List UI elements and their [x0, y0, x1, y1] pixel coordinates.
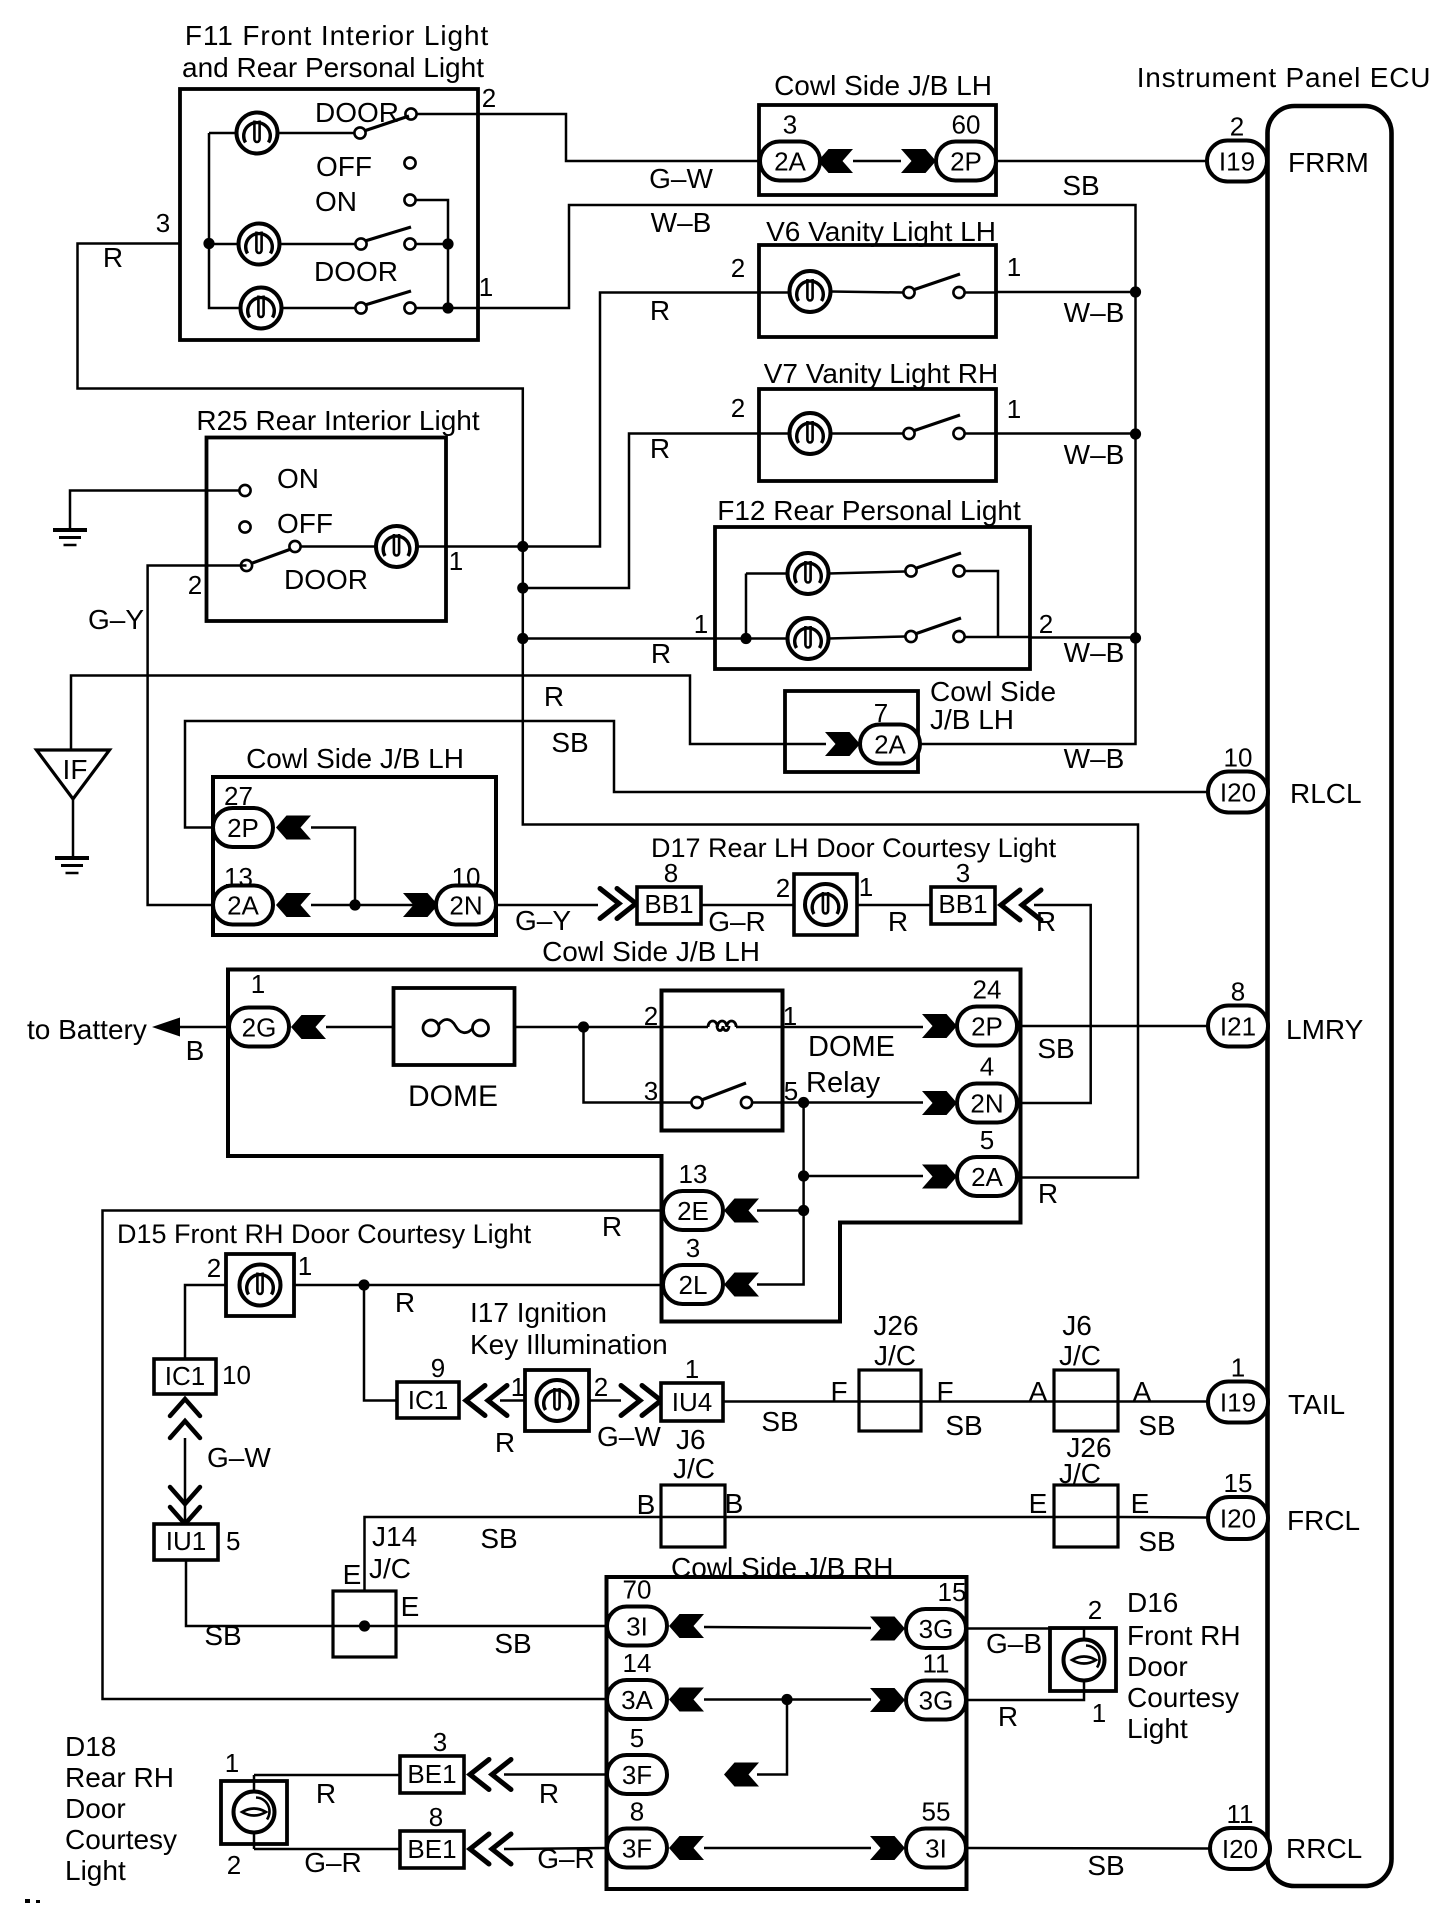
- svg-text:3I: 3I: [626, 1612, 648, 1642]
- wire through J26 (FRCL): [1054, 1516, 1118, 1519]
- connector BE1 pin 8: [400, 1802, 464, 1868]
- junction block J14: [333, 1591, 396, 1657]
- label wire color R (D17 mid): [888, 906, 908, 937]
- wire G-Y net R25 pin2 to 2A pin13: [148, 566, 247, 906]
- connector 3F pin 5 (J/B RH): [607, 1723, 667, 1794]
- label D17 lamp pin 1: [859, 872, 873, 902]
- label J14 J/C title line1: [372, 1521, 417, 1552]
- component I17 lamp box: [525, 1370, 589, 1431]
- wire F11 switch2 to rail: [416, 243, 449, 246]
- blade F11 switch3: [365, 291, 411, 305]
- svg-text:Cowl Side: Cowl Side: [930, 676, 1056, 707]
- label Cowl Side J/B LH title (big): [542, 936, 760, 967]
- svg-text:Front RH: Front RH: [1127, 1620, 1241, 1651]
- svg-text:1: 1: [479, 272, 493, 302]
- label pin A right: [1133, 1376, 1152, 1407]
- junction chevron 2 after BB1 pin3: [1022, 890, 1041, 920]
- noise filter IF triangle: [37, 750, 110, 799]
- label F11 pin 1: [479, 272, 493, 302]
- label wire color R (F11 pin3): [103, 242, 123, 273]
- label wire color W-B (top): [651, 207, 712, 238]
- svg-text:J/C: J/C: [1059, 1340, 1101, 1371]
- wire SB 3I pin55 to I20 RRCL: [966, 1847, 1209, 1850]
- contact F11 OFF: [404, 157, 415, 168]
- component Cowl Side J/B LH big box: [228, 970, 1021, 1322]
- wire F12 switch1 right rail: [965, 571, 999, 637]
- connector I19 pin 2 (FRRM): [1207, 112, 1267, 182]
- svg-text:2E: 2E: [677, 1196, 709, 1226]
- blade F11 DOOR switch: [364, 116, 409, 131]
- label D15 title: [117, 1219, 532, 1249]
- wire relay pin1 to 2P: [782, 1026, 923, 1029]
- connector BB1 pin 3: [931, 858, 995, 924]
- svg-text:8: 8: [630, 1797, 644, 1827]
- svg-text:I20: I20: [1220, 778, 1256, 808]
- label wire color W-B (2A): [1064, 743, 1125, 774]
- wire 2P arrow to branch: [311, 828, 355, 906]
- svg-text:2: 2: [776, 873, 790, 903]
- connector 2P pin 24 (big J/B): [957, 975, 1017, 1046]
- label relay pin 1: [783, 1001, 797, 1031]
- wire F12 internal left bus: [716, 574, 788, 639]
- contact R25 DOOR pivot: [289, 541, 300, 552]
- svg-text:2: 2: [207, 1253, 221, 1283]
- wire D15 branch to IC1 pin9: [364, 1285, 397, 1401]
- label wire color SB (FRRM): [1062, 170, 1099, 201]
- svg-text:D16: D16: [1127, 1587, 1178, 1618]
- connector 2N pin 4 (big J/B): [957, 1052, 1017, 1123]
- svg-text:1: 1: [449, 546, 463, 576]
- svg-text:Instrument Panel ECU: Instrument Panel ECU: [1137, 62, 1432, 93]
- label I17 lamp pin 2: [594, 1372, 608, 1402]
- label Cowl Side J/B RH title: [671, 1552, 894, 1583]
- svg-text:FRRM: FRRM: [1288, 147, 1369, 178]
- wire coil internal: [661, 1026, 782, 1029]
- label wire color R (D16): [998, 1701, 1018, 1732]
- wire G-R D18 pin2 to BE1 pin8: [254, 1848, 400, 1851]
- label 2G pin 1: [251, 969, 265, 999]
- svg-text:1: 1: [225, 1748, 239, 1778]
- contact F11 switch3 right: [404, 302, 415, 313]
- wire V6 switch to pin1: [965, 291, 997, 294]
- svg-text:G–R: G–R: [537, 1843, 595, 1874]
- svg-text:DOME: DOME: [808, 1031, 895, 1063]
- svg-text:LMRY: LMRY: [1286, 1014, 1364, 1045]
- connector 2A pin 5 (big J/B): [957, 1125, 1017, 1196]
- wire D18 lamp vertical: [253, 1775, 256, 1849]
- svg-text:11: 11: [1227, 1799, 1254, 1829]
- svg-text:9: 9: [431, 1353, 445, 1383]
- contact R25 ON: [239, 485, 250, 496]
- contact relay switch left: [691, 1097, 702, 1108]
- label F11 DOOR (bottom): [314, 256, 398, 287]
- svg-text:R: R: [539, 1778, 559, 1809]
- lamp V6 bulb: [790, 271, 831, 312]
- connector BE1 pin 3: [400, 1727, 464, 1793]
- label relay pin 5: [784, 1076, 798, 1106]
- label wire color SB (LMRY): [1037, 1033, 1074, 1064]
- label relay pin 2: [644, 1001, 658, 1031]
- label wire color R (2A pin5): [1038, 1178, 1058, 1209]
- svg-text:I21: I21: [1220, 1012, 1256, 1042]
- contact F11 DOOR switch right: [405, 108, 416, 119]
- component D17 lamp box: [794, 874, 857, 935]
- svg-text:13: 13: [679, 1159, 708, 1189]
- svg-text:OFF: OFF: [316, 151, 372, 182]
- wire SB J14 to 3I pin70: [396, 1625, 607, 1628]
- label wire color SB (TAIL 1): [761, 1406, 798, 1437]
- wire branch to relay pin3: [584, 1027, 662, 1103]
- contact F11 switch3 left: [355, 302, 366, 313]
- svg-text:R: R: [1038, 1178, 1058, 1209]
- junction F12 lamp bus: [740, 633, 751, 644]
- junction chevron 1 after BE1 pin8: [470, 1834, 489, 1864]
- svg-text:IU1: IU1: [166, 1526, 206, 1556]
- svg-text:BE1: BE1: [407, 1834, 456, 1864]
- wire G-W IC1 to IU1: [184, 1438, 187, 1524]
- junction chevron 1 after IC1 pin9: [466, 1386, 485, 1416]
- lamp F12 bulb 1: [788, 553, 829, 594]
- wire R chevrons to 3F pin5: [504, 1773, 607, 1776]
- svg-text:ON: ON: [315, 186, 357, 217]
- label wire color SB (TAIL 3): [1138, 1410, 1175, 1441]
- svg-text:Courtesy: Courtesy: [65, 1824, 177, 1855]
- svg-text:G–W: G–W: [207, 1442, 271, 1473]
- wire G-R BB1 to D17 lamp: [701, 904, 794, 907]
- label V7 pin 2: [731, 393, 745, 423]
- label J26 J/C title line2: [874, 1340, 916, 1371]
- label F11 DOOR (top): [315, 97, 399, 128]
- svg-text:SB: SB: [1037, 1033, 1074, 1064]
- wire 2A arrow to 2N arrow: [311, 904, 432, 907]
- label R25 pin 2: [188, 570, 202, 600]
- label F11 OFF: [316, 151, 372, 182]
- svg-text:DOOR: DOOR: [315, 97, 399, 128]
- svg-text:2P: 2P: [227, 813, 259, 843]
- wire F11 internal lamp bus: [209, 133, 240, 308]
- connector IU4 pin 1: [661, 1354, 723, 1421]
- svg-text:Relay: Relay: [806, 1067, 881, 1099]
- svg-text:R: R: [650, 295, 670, 326]
- svg-text:3: 3: [433, 1727, 447, 1757]
- junction chevron 1 after BB1 pin3: [1001, 890, 1020, 920]
- label 2P pin 27: [224, 781, 253, 811]
- label pin B left (J6 FRCL): [637, 1489, 656, 1520]
- svg-text:SB: SB: [494, 1628, 531, 1659]
- wire through J26 (TAIL): [859, 1400, 921, 1403]
- wire D15 pin1 to 2L pin3: [294, 1284, 663, 1287]
- label RRCL: [1286, 1833, 1362, 1864]
- wire R D17 lamp to BB1 pin3: [857, 904, 931, 907]
- svg-text:2L: 2L: [679, 1270, 708, 1300]
- wire to battery line: [178, 1026, 229, 1029]
- svg-text:I20: I20: [1220, 1504, 1256, 1534]
- svg-text:SB: SB: [480, 1523, 517, 1554]
- label D17 title: [651, 833, 1057, 863]
- svg-text:W–B: W–B: [1064, 743, 1125, 774]
- wire F11 pin2 to DOOR switch: [417, 113, 479, 116]
- svg-text:2: 2: [644, 1001, 658, 1031]
- svg-text:A: A: [1029, 1376, 1048, 1407]
- wire D15 pin2 to IC1 pin10: [185, 1285, 226, 1359]
- label J26 J/C title (FRCL) line2: [1059, 1458, 1101, 1489]
- junction arrow into 2A pin5: [922, 1165, 957, 1189]
- connector 2L pin 3 (big J/B): [663, 1233, 723, 1304]
- junction R bus / R25 pin1 and V6: [517, 541, 528, 552]
- junction arrow into 3G pin15: [870, 1617, 905, 1641]
- label TAIL: [1288, 1389, 1345, 1420]
- wire 2G arrow to fuse: [326, 1026, 394, 1029]
- svg-text:1: 1: [1007, 252, 1021, 282]
- svg-text:R: R: [316, 1778, 336, 1809]
- svg-text:5: 5: [980, 1125, 994, 1155]
- label wire color SB (FRCL right): [1138, 1526, 1175, 1557]
- svg-text:E: E: [1131, 1488, 1150, 1519]
- svg-text:SB: SB: [761, 1406, 798, 1437]
- svg-text:F11 Front Interior Light: F11 Front Interior Light: [185, 20, 489, 51]
- svg-text:J/C: J/C: [369, 1553, 411, 1584]
- label wire color R (D15 pin1): [395, 1287, 415, 1318]
- connector IU1 pin 5: [154, 1524, 240, 1560]
- svg-text:3G: 3G: [919, 1686, 954, 1716]
- wire G-R chevrons to 3F pin8: [504, 1848, 607, 1849]
- svg-text:11: 11: [923, 1649, 950, 1679]
- contact F11 DOOR switch left: [354, 127, 365, 138]
- svg-text:3: 3: [156, 208, 170, 238]
- svg-text:1: 1: [1231, 1353, 1245, 1383]
- label pin B right (J6 FRCL): [725, 1488, 744, 1519]
- connector BB1 pin 8: [637, 858, 701, 924]
- svg-text:1: 1: [251, 969, 265, 999]
- svg-text:Courtesy: Courtesy: [1127, 1682, 1239, 1713]
- connector 3I pin 70 (J/B RH): [607, 1575, 667, 1646]
- junction block J26 (FRCL): [1054, 1485, 1118, 1547]
- junction chevron 2 after BE1 pin8: [492, 1834, 511, 1864]
- junction arrow into 2N pin4: [922, 1091, 957, 1115]
- blade V6 switch: [913, 274, 960, 290]
- svg-text:3A: 3A: [621, 1685, 653, 1715]
- svg-text:RLCL: RLCL: [1290, 778, 1362, 809]
- component Cowl Side J/B LH small box: [785, 691, 918, 772]
- svg-text:2: 2: [594, 1372, 608, 1402]
- label D18 text line3: [65, 1793, 126, 1824]
- svg-text:SB: SB: [551, 727, 588, 758]
- svg-text:R: R: [998, 1701, 1018, 1732]
- label DOME fuse: [408, 1080, 498, 1113]
- connector I21 pin 8 (LMRY): [1208, 977, 1268, 1047]
- svg-text:FRCL: FRCL: [1287, 1505, 1360, 1536]
- svg-text:R: R: [544, 681, 564, 712]
- wire W-B bus F11 pin1 to vanity/personal lights: [478, 205, 1136, 744]
- label D16 text line4: [1127, 1682, 1239, 1713]
- svg-text:ON: ON: [277, 463, 319, 494]
- svg-text:G–Y: G–Y: [88, 604, 144, 635]
- component V6 vanity light box: [759, 245, 996, 337]
- svg-text:D18: D18: [65, 1731, 116, 1762]
- svg-text:I20: I20: [1222, 1834, 1258, 1864]
- wire V6 pin1 to W-B bus: [996, 291, 1136, 294]
- junction arrow into 2G: [291, 1015, 326, 1039]
- contact V7 switch right: [953, 428, 964, 439]
- connector I20 pin 11 (RRCL): [1210, 1799, 1270, 1869]
- label R25 pin 1: [449, 546, 463, 576]
- svg-text:W–B: W–B: [1064, 637, 1125, 668]
- connector 2A pin 3 (Cowl J/B LH top): [760, 110, 820, 181]
- label pin E right (FRCL): [1131, 1488, 1150, 1519]
- svg-text:3F: 3F: [622, 1834, 652, 1864]
- svg-text:G–B: G–B: [986, 1628, 1042, 1659]
- label I17 lamp pin 1: [511, 1372, 525, 1402]
- svg-text:J26: J26: [873, 1310, 918, 1341]
- label wire color R (IF net): [544, 681, 564, 712]
- wire through J6 (FRCL): [661, 1516, 725, 1519]
- junction arrow into 2P (top J/B): [901, 149, 936, 173]
- wire F11 ON contact to right rail: [416, 200, 449, 308]
- connector 2N pin 10 (mid J/B): [436, 886, 496, 925]
- svg-text:10: 10: [1224, 743, 1253, 773]
- svg-text:F: F: [830, 1376, 847, 1407]
- label wire color G-B: [986, 1628, 1042, 1659]
- svg-text:J/C: J/C: [874, 1340, 916, 1371]
- svg-text:and Rear Personal Light: and Rear Personal Light: [182, 52, 484, 83]
- svg-text:E: E: [343, 1559, 362, 1590]
- svg-text:2N: 2N: [449, 891, 482, 921]
- ground at R25 ON: [53, 530, 87, 545]
- svg-text:R: R: [495, 1427, 515, 1458]
- label pin F right: [936, 1376, 953, 1407]
- svg-text:V7 Vanity Light RH: V7 Vanity Light RH: [764, 358, 999, 389]
- blade F12 switch2: [915, 618, 961, 634]
- junction chevron 2 before IU4: [642, 1386, 661, 1416]
- label pin E left (FRCL): [1029, 1488, 1048, 1519]
- svg-text:E: E: [401, 1591, 420, 1622]
- wire relay switch to pin5: [752, 1101, 782, 1104]
- label wire color SB (IU1): [204, 1620, 241, 1651]
- label D16 text line2: [1127, 1620, 1241, 1651]
- wire SB J26 to I20 FRCL: [1118, 1516, 1207, 1519]
- junction chevron 1 after BE1 pin3: [470, 1760, 489, 1790]
- contact V7 switch left: [903, 428, 914, 439]
- connector 3F pin 8 (J/B RH): [607, 1797, 667, 1868]
- svg-text:2P: 2P: [950, 147, 982, 177]
- component D16 lamp box: [1050, 1628, 1116, 1691]
- label F12 Rear Personal Light title: [717, 495, 1021, 526]
- component Cowl Side J/B LH box (top): [759, 105, 996, 195]
- svg-text:G–R: G–R: [708, 906, 766, 937]
- junction arrow into 2A (top J/B): [818, 149, 853, 173]
- junction chevron up 2 (G-W): [170, 1421, 200, 1438]
- wire G-B 3G pin15 to D16 lamp: [966, 1629, 1084, 1642]
- svg-text:E: E: [1029, 1488, 1048, 1519]
- wire V7 pin1 to W-B bus: [996, 432, 1136, 435]
- label I17 title line2: [470, 1329, 668, 1360]
- junction arrow into 3F pin5: [724, 1763, 759, 1787]
- connector IC1 pin 10: [154, 1359, 251, 1394]
- label J6 (below IU4) line1: [676, 1424, 706, 1455]
- wire through J6 (TAIL): [1054, 1400, 1118, 1403]
- wire R branch to F12 pin1: [523, 637, 716, 640]
- label F11 pin 2: [482, 83, 496, 113]
- label wire color SB (J14 right): [494, 1628, 531, 1659]
- wire SB IU4 to J26: [723, 1400, 859, 1403]
- label wire color R (2E left): [602, 1211, 622, 1242]
- junction R bus / F12 pin1: [517, 633, 528, 644]
- label 2A pin 13: [224, 862, 253, 892]
- label J6 J/C title line1: [1062, 1310, 1092, 1341]
- svg-text:24: 24: [973, 975, 1002, 1005]
- svg-text:I17 Ignition: I17 Ignition: [470, 1297, 607, 1328]
- label F12 pin 2: [1039, 609, 1053, 639]
- svg-text:R: R: [1036, 906, 1056, 937]
- wire F11 lamp3 to switch3: [282, 307, 356, 310]
- junction branch to 2A pin5: [798, 1170, 809, 1181]
- junction inside J14: [359, 1620, 370, 1631]
- wire SB J6 to I19 TAIL: [1118, 1400, 1207, 1403]
- wire branch to 3F pin5: [757, 1700, 787, 1775]
- label wire color SB (FRCL left): [480, 1523, 517, 1554]
- svg-text:8: 8: [664, 858, 678, 888]
- svg-text:3: 3: [686, 1233, 700, 1263]
- svg-text:G–W: G–W: [597, 1421, 661, 1452]
- contact F12 switch2 right: [953, 631, 964, 642]
- svg-text:DOME: DOME: [408, 1080, 498, 1113]
- junction chevron down 2 (G-W): [170, 1507, 200, 1524]
- wire V7 switch to pin1: [965, 432, 997, 435]
- svg-text:F12 Rear Personal Light: F12 Rear Personal Light: [717, 495, 1021, 526]
- junction relay pin5 branch: [798, 1097, 809, 1108]
- svg-text:Rear RH: Rear RH: [65, 1762, 174, 1793]
- wire V7 internal left: [759, 432, 790, 435]
- svg-text:BB1: BB1: [938, 889, 987, 919]
- wire G-W net F11 pin2 to Cowl J/B 2A: [478, 114, 761, 161]
- connector 2P pin 60 (Cowl J/B LH top): [936, 110, 996, 181]
- contact F12 switch2 left: [905, 631, 916, 642]
- label wire color R (BB1 right): [1036, 906, 1056, 937]
- wire SB net 2P to I20 RLCL: [185, 721, 1208, 828]
- svg-text:14: 14: [623, 1648, 652, 1678]
- svg-text:1: 1: [694, 609, 708, 639]
- svg-text:OFF: OFF: [277, 508, 333, 539]
- svg-text:D17 Rear LH Door Courtesy Ligh: D17 Rear LH Door Courtesy Light: [651, 833, 1057, 863]
- svg-text:J14: J14: [372, 1521, 417, 1552]
- component F12 rear personal light box: [715, 527, 1030, 669]
- svg-text:I19: I19: [1220, 1388, 1256, 1418]
- contact relay switch right: [741, 1097, 752, 1108]
- junction arrow into 3I pin70: [669, 1614, 704, 1638]
- junction arrow into 2A pin7: [825, 732, 860, 756]
- label V6 pin 1: [1007, 252, 1021, 282]
- svg-text:1: 1: [298, 1251, 312, 1281]
- svg-text:SB: SB: [1087, 1850, 1124, 1881]
- contact F11 switch2 left: [355, 238, 366, 249]
- lamp R25 bulb: [376, 526, 417, 567]
- wire 3A to 3G inside: [704, 1698, 871, 1701]
- label F12 pin 1: [694, 609, 708, 639]
- svg-text:BE1: BE1: [407, 1759, 456, 1789]
- component Cowl Side J/B RH box: [607, 1577, 967, 1889]
- svg-text:15: 15: [938, 1577, 967, 1607]
- label J26 J/C title (FRCL) line1: [1066, 1432, 1111, 1463]
- svg-text:2: 2: [482, 83, 496, 113]
- svg-text:SB: SB: [1138, 1410, 1175, 1441]
- svg-text:8: 8: [429, 1802, 443, 1832]
- junction mid J/B branch: [349, 899, 360, 910]
- junction chevron 2 after BE1 pin3: [492, 1760, 511, 1790]
- label wire color SB (TAIL 2): [945, 1410, 982, 1441]
- label 2N pin 10: [452, 862, 481, 892]
- svg-text:B: B: [637, 1489, 656, 1520]
- lamp D15 bulb: [240, 1265, 281, 1306]
